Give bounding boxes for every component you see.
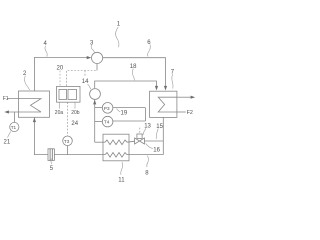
sensor T4 <box>95 120 103 122</box>
svg-text:15: 15 <box>156 124 163 130</box>
label 4 <box>45 46 47 57</box>
wire second line into right HX (from valve 14 riser) <box>95 81 157 88</box>
wire injection line HX11 to valve16 <box>127 141 135 142</box>
label 20a leader <box>59 102 61 108</box>
label 15 <box>156 129 158 140</box>
svg-text:20a: 20a <box>55 110 64 116</box>
arrowhead into compressor <box>87 56 92 59</box>
label 21 <box>8 132 11 138</box>
label 7 <box>172 74 173 89</box>
arrowhead air exit left <box>4 110 9 113</box>
wire injection line riser to HX11 <box>95 141 105 143</box>
dashed sensor line controller down to T3 <box>67 102 69 135</box>
HX2 air path sigma <box>8 99 42 112</box>
svg-text:F2: F2 <box>187 110 193 116</box>
heat exchanger 12 (right indoor HX box) <box>150 91 177 117</box>
HX12 air exit top arrow line <box>177 96 193 98</box>
svg-text:T4: T4 <box>104 120 110 125</box>
wire valve16 to junction <box>144 140 163 142</box>
svg-text:21: 21 <box>4 140 11 146</box>
label 5 <box>50 159 53 165</box>
sensor lines to the right <box>113 108 145 121</box>
label 14 leader <box>88 84 91 89</box>
label 18 <box>133 69 135 81</box>
arrowhead up into valve 14 <box>93 100 96 105</box>
valve 16 coil box <box>137 134 142 138</box>
expansion valve 16 bowtie <box>135 138 145 144</box>
label 20b leader <box>74 102 76 108</box>
wire suction line (left HX top to compressor) <box>35 57 88 91</box>
controller 20 <box>57 86 80 102</box>
svg-text:T1: T1 <box>11 125 17 130</box>
HX12 air entry bottom line <box>177 111 186 113</box>
wire right HX bottom to junction to bottom line <box>162 117 164 154</box>
label 19 <box>117 109 121 112</box>
dashed control branch to valve 14 <box>84 71 86 77</box>
label 16 <box>146 143 153 148</box>
HX11 top coil <box>105 140 127 145</box>
label 8 <box>147 156 149 167</box>
sensor T3 <box>67 146 69 155</box>
wire liquid line HX11 to right riser <box>127 154 163 156</box>
svg-text:19: 19 <box>121 111 128 117</box>
sensor T1 <box>13 112 15 122</box>
svg-text:T3: T3 <box>64 139 70 144</box>
svg-text:18: 18 <box>130 64 137 70</box>
valve 14 <box>90 89 101 100</box>
arrowhead up into HX2 bottom <box>33 118 36 123</box>
svg-text:20b: 20b <box>71 110 80 116</box>
label 1 <box>116 27 119 47</box>
controller part 20b <box>68 89 77 99</box>
svg-text:20: 20 <box>57 66 64 72</box>
label 3 <box>91 45 94 53</box>
arrowhead second line into right HX top <box>155 86 158 91</box>
dashed control line to valve 16 <box>139 128 141 134</box>
HX2 air exit line <box>7 111 41 113</box>
label 11 <box>121 162 123 175</box>
label 20 with dashed leader <box>59 71 61 86</box>
sensor P3 <box>95 107 103 109</box>
svg-text:P3: P3 <box>104 106 110 111</box>
arrowhead into right HX top <box>164 86 167 91</box>
svg-text:F1: F1 <box>3 96 9 102</box>
HX12 air path sigma <box>158 97 177 112</box>
internal heat exchanger 11 <box>103 134 129 161</box>
label 6 <box>148 45 151 57</box>
dashed control line controller to compressor <box>67 71 97 87</box>
wire discharge line (compressor to right HX) <box>103 58 166 86</box>
svg-text:13: 13 <box>144 124 151 130</box>
label 2 <box>25 76 30 90</box>
svg-text:11: 11 <box>118 178 125 184</box>
label 13 <box>143 128 146 135</box>
svg-text:16: 16 <box>153 148 160 154</box>
expansion valve 5 <box>48 149 54 161</box>
wire liquid line valve5 to HX11 <box>54 154 105 156</box>
wire compressor bottom stub <box>96 64 98 71</box>
svg-text:24: 24 <box>71 121 78 127</box>
wire riser below valve 14 <box>94 100 96 143</box>
arrowhead air exit right <box>191 96 196 99</box>
controller part 20a <box>59 89 67 99</box>
compressor 3 <box>92 52 103 63</box>
HX11 bottom coil <box>105 153 127 158</box>
wire bottom liquid line <box>34 117 48 154</box>
heat exchanger 2 (left outdoor HX box) <box>18 91 49 117</box>
